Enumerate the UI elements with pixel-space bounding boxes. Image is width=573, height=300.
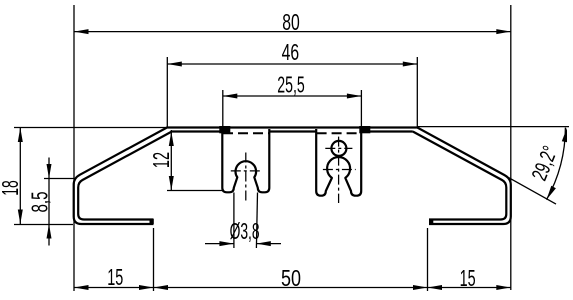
extension line 8,5 top (y=178.5): [44, 178, 75, 180]
solid marks: [150, 126, 434, 224]
dashed line left clip top: [223, 132, 269, 134]
dimension line 80: [74, 31, 511, 33]
centerline left clip vertical: [245, 153, 247, 201]
extension line right outer (x=510.8): [510, 5, 512, 290]
extension line hole left: [233, 193, 235, 249]
svg-text:15: 15: [107, 264, 123, 290]
svg-text:50: 50: [281, 265, 301, 291]
arrow 46 right: [403, 62, 418, 67]
arrow bottom right-mid pointing right: [413, 285, 428, 290]
right hem end mark: [429, 219, 433, 224]
angle arc: [547, 128, 566, 200]
centerline left clip horizontal: [231, 170, 261, 172]
arrow 12 top: [169, 132, 174, 147]
arrow 18 top: [18, 128, 23, 143]
angle horizontal leg: [417, 126, 569, 128]
inner contour middle: [269, 130, 316, 132]
extension line 46 left: [166, 57, 168, 127]
svg-text:8,5: 8,5: [27, 192, 53, 213]
extension line bottom level left (y=224.5): [14, 224, 73, 226]
extension line 25,5 right: [360, 90, 362, 126]
svg-text:18: 18: [0, 180, 23, 196]
dimension line bottom 15/50/15: [74, 287, 511, 289]
extension line bottom left hook end: [153, 228, 155, 291]
dimension line 25,5: [223, 95, 362, 97]
dimension line 18: [19, 128, 21, 225]
arrow diameter left (pointing right): [219, 241, 234, 246]
inner contour right: [361, 132, 506, 220]
svg-text:46: 46: [282, 39, 300, 65]
extension line hole right: [256, 193, 257, 249]
arrow 18 bottom: [18, 210, 23, 225]
left hem end mark: [150, 219, 154, 224]
centerline right clip vertical: [338, 137, 340, 203]
dashed line right clip top: [317, 132, 361, 134]
extension line left outer (x=74): [73, 5, 75, 291]
arrow 80 left: [74, 29, 89, 34]
svg-text:15: 15: [460, 265, 476, 291]
centerline right keyhole horizontal: [323, 169, 356, 171]
svg-text:25,5: 25,5: [277, 71, 305, 97]
arrow bottom left-mid pointing right: [139, 285, 154, 290]
arrow bottom right-mid pointing left: [428, 285, 443, 290]
dimension line diameter left segment: [205, 243, 234, 245]
angle sloped leg: [490, 167, 556, 204]
inner contour left: [78, 132, 222, 220]
arrow 8,5 bottom (outside, pointing up): [47, 224, 52, 239]
right clip upper hole: [331, 141, 346, 156]
dimension line diameter right segment: [256, 243, 281, 245]
dimension line 8,5: [48, 158, 50, 246]
left flat blob: [219, 126, 230, 133]
arrow angle arc top: [562, 128, 567, 143]
right clip outline: [316, 129, 361, 196]
extension line 25,5 left: [222, 90, 224, 126]
svg-text:12: 12: [148, 152, 174, 168]
svg-text:80: 80: [282, 9, 300, 35]
extension line 46 right: [416, 57, 418, 127]
center lines (dash-dot): [231, 137, 356, 203]
arrow bottom far-right: [496, 285, 511, 290]
arrow 12 bottom: [169, 176, 174, 191]
dimension line 12: [170, 130, 172, 191]
left clip outline: [222, 129, 269, 192]
right flat blob: [359, 126, 370, 133]
profile outline (thick): [74, 128, 511, 225]
arrow bottom far-left: [74, 285, 89, 290]
arrow diameter right (pointing left): [256, 241, 271, 246]
centerline right upper hole horizontal: [325, 147, 352, 149]
dimension line 46: [167, 63, 417, 65]
arrow 25,5 left: [223, 94, 238, 99]
arrow angle arc bottom: [547, 186, 556, 200]
outer contour: [74, 128, 511, 225]
svg-text:Ø3,8: Ø3,8: [230, 218, 260, 244]
hidden dashes at clip tops: [223, 132, 361, 134]
arrow 46 left: [167, 62, 182, 67]
arrow bottom left-mid pointing left: [154, 285, 169, 290]
arrow 8,5 top (outside, pointing down): [47, 164, 52, 179]
arrow 25,5 right: [347, 94, 362, 99]
extension line clip bottom (y=190.5): [167, 190, 222, 192]
extension line bottom right hook end: [427, 228, 429, 291]
extension line top level left (y=127.5): [14, 127, 167, 129]
arrow 80 right: [496, 29, 511, 34]
